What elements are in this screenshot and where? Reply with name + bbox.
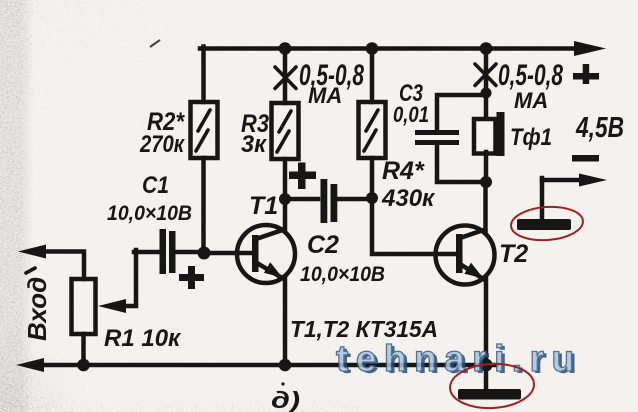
polarity plus of C2 xyxy=(289,163,316,190)
svg-text:R1 10к: R1 10к xyxy=(104,325,182,352)
node D T2 collector junction xyxy=(480,176,492,188)
annotation red ellipse upper ground xyxy=(510,205,584,243)
svg-text:д): д) xyxy=(271,387,300,412)
wire rail down through break mark to node E xyxy=(484,47,489,120)
label C1 10,0x10B xyxy=(107,172,192,225)
svg-text:Вход: Вход xyxy=(22,277,52,341)
wire input upper with arrow xyxy=(18,245,84,280)
battery plus label xyxy=(573,64,599,84)
svg-text:Т1: Т1 xyxy=(249,192,278,220)
svg-text:4,5В: 4,5В xyxy=(575,112,624,144)
node T1 emitter on rail xyxy=(279,359,292,372)
node E C3 top junction xyxy=(481,88,492,99)
watermark tehnari.ru xyxy=(336,338,585,381)
svg-text:МА: МА xyxy=(308,83,342,108)
svg-text:0,01: 0,01 xyxy=(393,102,429,127)
wire T1 emitter to bottom rail xyxy=(283,278,288,366)
svg-text:10,0×10В: 10,0×10В xyxy=(300,263,385,286)
battery minus label xyxy=(572,155,599,162)
label Vhod input xyxy=(22,268,52,341)
label C3 0,01 xyxy=(393,80,429,127)
label R4* 430k xyxy=(381,157,436,212)
svg-text:С1: С1 xyxy=(142,172,169,199)
wire R3 to node B xyxy=(283,159,288,199)
wire T2 emitter down through rail to ground xyxy=(484,279,489,389)
wire rail to R4 xyxy=(370,47,375,103)
node R1 bottom on rail xyxy=(77,359,90,372)
annotation red ellipse lower ground xyxy=(449,362,535,410)
label 0,5-0,8 MA left xyxy=(299,59,364,108)
svg-text:430к: 430к xyxy=(381,185,436,212)
svg-text:R4*: R4* xyxy=(382,157,425,185)
resistor R2 xyxy=(191,102,218,158)
capacitor C3 with wires xyxy=(415,95,486,182)
node rail junction R4 xyxy=(366,42,379,55)
svg-text:МА: МА xyxy=(514,88,548,113)
svg-text:Тф1: Тф1 xyxy=(510,124,552,151)
wire node B down to T1 collector xyxy=(283,199,288,230)
wire Tf1 to node D xyxy=(484,152,489,182)
wire R4 to node C xyxy=(370,158,375,198)
node A T1 base junction xyxy=(198,247,211,260)
current break mark X1 xyxy=(275,67,296,89)
node C C2 right / T2 base xyxy=(366,192,378,204)
transistor T1 xyxy=(204,225,295,283)
ground symbol upper xyxy=(517,219,571,230)
wire rail to R3 through break mark xyxy=(283,47,288,104)
wire top supply rail with + arrow xyxy=(200,41,606,56)
svg-text:270к: 270к xyxy=(139,131,185,158)
label R3 3k xyxy=(241,110,269,158)
label R2* 270k xyxy=(139,108,185,158)
polarity plus of C1 xyxy=(179,266,204,289)
earphone Tf1 xyxy=(474,112,505,156)
resistor R4 xyxy=(359,102,386,158)
node rail junction R3 xyxy=(279,42,292,55)
capacitor C2 xyxy=(285,179,372,223)
wire rail to R2 xyxy=(201,47,206,103)
label 0,5-0,8 MA right xyxy=(498,59,563,113)
svg-text:3к: 3к xyxy=(241,131,268,158)
potentiometer R1 xyxy=(72,250,137,366)
wire node C to T2 base xyxy=(372,198,455,254)
wire node D to T2 collector xyxy=(483,182,488,231)
wire R2 to T1 base node xyxy=(201,158,206,253)
resistor R3 xyxy=(272,103,299,159)
current break mark X2 xyxy=(475,64,496,86)
node T2 emitter on rail xyxy=(480,359,493,372)
node rail junction output branch xyxy=(480,42,493,55)
wire bottom common rail with arrow xyxy=(16,358,497,372)
capacitor C1 xyxy=(134,229,204,274)
svg-text:Т2: Т2 xyxy=(499,240,528,268)
node B collector T1 / C2 left xyxy=(279,193,291,205)
label C2 10,0x10B xyxy=(300,231,385,286)
ground symbol lower xyxy=(458,389,521,400)
svg-text:С2: С2 xyxy=(307,231,339,259)
wire minus terminal to ground with arrow xyxy=(542,174,607,220)
svg-text:10,0×10В: 10,0×10В xyxy=(107,202,192,225)
transistor T2 xyxy=(436,226,495,285)
